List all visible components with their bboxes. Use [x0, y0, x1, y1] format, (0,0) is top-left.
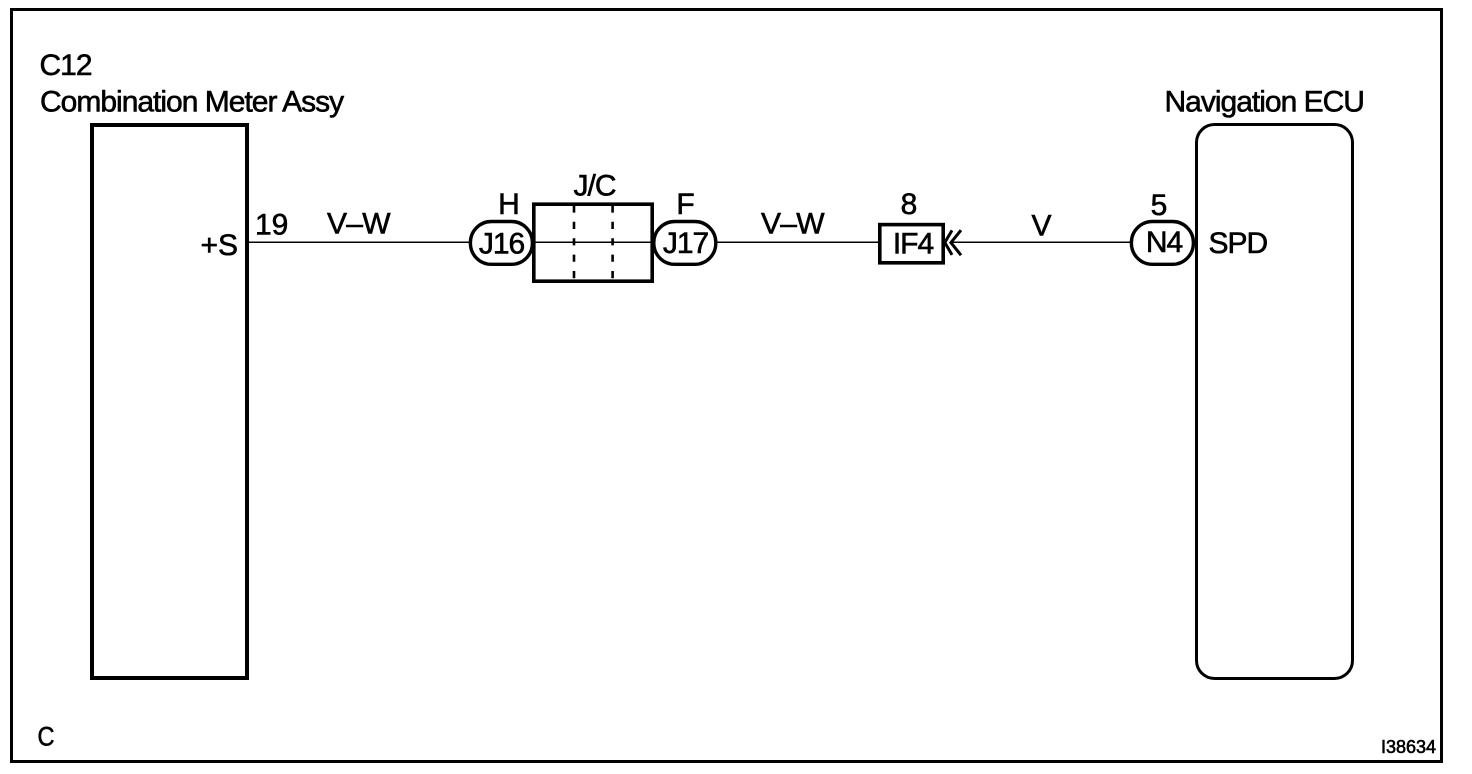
wire IF4 to N4 [952, 241, 1130, 243]
svg-text:SPD: SPD [1209, 227, 1268, 260]
svg-text:Combination Meter Assy: Combination Meter Assy [40, 86, 344, 119]
wire through J/C [532, 241, 654, 243]
svg-text:+S: +S [200, 229, 238, 262]
connector J17 [654, 222, 716, 265]
connector IF4 box [880, 225, 943, 263]
svg-text:IF4: IF4 [893, 228, 934, 261]
connector chevron 1 [945, 230, 952, 255]
dashed divider 2 [611, 205, 614, 279]
svg-text:V–W: V–W [327, 208, 391, 241]
svg-text:J/C: J/C [574, 170, 616, 203]
svg-text:V: V [1031, 210, 1051, 243]
wire J17 to IF4 [716, 241, 879, 243]
svg-text:H: H [498, 188, 520, 221]
svg-text:J16: J16 [479, 228, 525, 261]
svg-text:8: 8 [901, 188, 918, 221]
connector C12 box [92, 125, 247, 678]
dashed divider 1 [573, 205, 576, 279]
svg-text:V–W: V–W [761, 208, 825, 241]
svg-text:C: C [38, 722, 55, 752]
svg-text:19: 19 [255, 209, 288, 242]
Navigation ECU box [1197, 125, 1353, 679]
svg-text:5: 5 [1151, 189, 1168, 222]
svg-text:J17: J17 [663, 227, 709, 260]
connector N4 [1131, 222, 1193, 265]
junction connector box [534, 204, 652, 281]
wire C12 to J16 [249, 241, 470, 243]
svg-text:I38634: I38634 [1381, 737, 1436, 757]
connector chevron 2 [951, 230, 961, 255]
svg-text:Navigation ECU: Navigation ECU [1165, 85, 1364, 118]
svg-text:C12: C12 [40, 49, 92, 82]
connector J16 [470, 222, 532, 265]
svg-text:N4: N4 [1146, 226, 1183, 259]
svg-text:F: F [676, 188, 694, 221]
